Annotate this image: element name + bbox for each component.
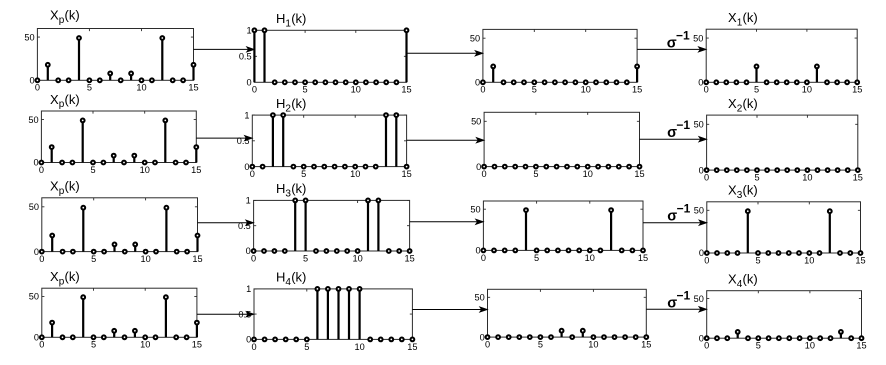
subplot row 4 col 1: axes box [42, 288, 197, 337]
svg-text:10: 10 [351, 85, 361, 95]
stem series prod4 [562, 333, 583, 338]
svg-text:15: 15 [641, 340, 651, 350]
svg-text:5: 5 [754, 85, 759, 95]
title X_p(k) row 1 [50, 8, 80, 26]
stem series Xout1 [757, 68, 817, 82]
svg-text:0: 0 [34, 333, 39, 343]
arrow row 4: plot 2 to plot 3 [412, 306, 488, 313]
svg-text:1: 1 [246, 284, 251, 294]
svg-text:0: 0 [39, 165, 44, 175]
subplot row 3 col 3: axes box [483, 201, 643, 250]
subplot row 2 col 4: axes box [707, 115, 858, 170]
svg-text:0: 0 [482, 169, 487, 179]
svg-text:15: 15 [407, 342, 417, 352]
stem series H3 [295, 202, 378, 251]
svg-text:0: 0 [251, 342, 256, 352]
svg-text:0: 0 [480, 332, 485, 342]
svg-text:0: 0 [251, 253, 256, 263]
svg-text:5: 5 [754, 173, 759, 183]
svg-text:10: 10 [350, 169, 360, 179]
svg-text:(k): (k) [291, 11, 306, 26]
title X_3(k) row 3 [728, 183, 758, 201]
svg-text:0: 0 [704, 85, 709, 95]
title X_1(k) row 1 [728, 10, 758, 28]
tick labels row 4 col 4 [694, 294, 867, 351]
svg-text:(k): (k) [291, 181, 306, 196]
title H_4(k) row 4 [276, 270, 306, 288]
tick labels row 4 col 3 [474, 293, 651, 350]
svg-text:(k): (k) [743, 272, 758, 287]
svg-text:10: 10 [802, 173, 812, 183]
stem series H4 [317, 291, 359, 340]
tick labels row 3 col 4 [694, 206, 866, 266]
svg-text:50: 50 [694, 120, 704, 130]
svg-text:10: 10 [140, 340, 150, 350]
svg-text:10: 10 [804, 255, 814, 265]
stem series Xout2 [705, 168, 860, 172]
subplot row 1 col 1: axes box [37, 29, 193, 81]
tick labels row 2 col 2 [237, 110, 412, 179]
title H_3(k) row 3 [276, 181, 306, 199]
svg-text:50: 50 [28, 115, 38, 125]
svg-text:(k): (k) [65, 92, 80, 107]
svg-text:10: 10 [583, 169, 593, 179]
svg-text:5: 5 [90, 165, 95, 175]
svg-text:15: 15 [638, 253, 648, 263]
svg-text:H: H [276, 96, 285, 111]
svg-text:X: X [50, 8, 59, 23]
svg-text:0: 0 [480, 85, 485, 95]
stem series Xout4 [738, 334, 841, 339]
svg-text:10: 10 [581, 85, 591, 95]
arrow row 2: plot 2 to plot 3 [407, 137, 486, 144]
svg-text:X: X [50, 269, 59, 284]
svg-text:5: 5 [532, 85, 537, 95]
svg-text:1: 1 [246, 196, 251, 206]
svg-text:10: 10 [136, 83, 146, 93]
tick labels row 3 col 3 [470, 204, 648, 262]
sigma^-1 label row 2 [667, 118, 690, 141]
svg-text:H: H [276, 181, 285, 196]
svg-text:15: 15 [404, 253, 414, 263]
svg-text:X: X [728, 183, 737, 198]
svg-text:50: 50 [470, 33, 480, 43]
svg-text:−1: −1 [676, 118, 690, 132]
subplot row 3 col 2: axes box [254, 200, 410, 251]
sigma^-1 label row 3 [667, 202, 690, 225]
svg-text:15: 15 [188, 83, 198, 93]
tick labels row 2 col 4 [694, 120, 863, 183]
svg-text:15: 15 [192, 254, 202, 264]
svg-text:5: 5 [538, 340, 543, 350]
svg-text:5: 5 [533, 169, 538, 179]
svg-text:0: 0 [246, 335, 251, 345]
svg-text:5: 5 [303, 253, 308, 263]
tick labels row 1 col 1 [24, 32, 198, 92]
title X_p(k) row 2 [50, 92, 80, 110]
tick labels row 3 col 1 [29, 202, 203, 264]
stem series H1 [254, 32, 406, 82]
svg-text:50: 50 [694, 294, 704, 304]
svg-text:10: 10 [140, 254, 150, 264]
subplot row 4 col 3: axes box [488, 289, 647, 337]
svg-text:(k): (k) [65, 269, 80, 284]
svg-text:0: 0 [704, 173, 709, 183]
tick labels row 4 col 1 [29, 292, 202, 350]
svg-text:0: 0 [39, 254, 44, 264]
svg-text:5: 5 [304, 342, 309, 352]
arrow row 2: plot 3 to plot 4 [640, 136, 708, 143]
svg-text:0: 0 [29, 76, 34, 86]
title H_2(k) row 2 [276, 96, 306, 114]
svg-text:0: 0 [699, 333, 704, 343]
svg-text:50: 50 [24, 32, 34, 42]
svg-text:H: H [276, 11, 285, 26]
arrow row 3: plot 1 to plot 2 [198, 219, 255, 226]
svg-text:15: 15 [401, 169, 411, 179]
svg-text:10: 10 [588, 340, 598, 350]
svg-text:5: 5 [755, 255, 760, 265]
svg-text:(k): (k) [743, 10, 758, 25]
arrow row 1: plot 2 to plot 3 [407, 50, 485, 57]
svg-text:50: 50 [471, 117, 481, 127]
svg-text:5: 5 [91, 340, 96, 350]
svg-text:0: 0 [250, 169, 255, 179]
svg-text:(k): (k) [291, 270, 306, 285]
title X_p(k) row 3 [50, 179, 80, 197]
svg-text:(k): (k) [291, 96, 306, 111]
svg-text:15: 15 [853, 173, 863, 183]
svg-text:0: 0 [252, 85, 257, 95]
svg-text:0: 0 [485, 340, 490, 350]
svg-text:0: 0 [34, 247, 39, 257]
svg-text:50: 50 [470, 204, 480, 214]
svg-text:X: X [728, 272, 737, 287]
stem series Xout3 [748, 213, 830, 253]
subplot row 1 col 2: axes box [254, 30, 406, 82]
svg-text:15: 15 [632, 85, 642, 95]
svg-text:0: 0 [699, 248, 704, 258]
svg-text:0: 0 [704, 255, 709, 265]
svg-text:0: 0 [698, 78, 703, 88]
svg-text:50: 50 [29, 202, 39, 212]
svg-text:50: 50 [694, 206, 704, 216]
tick labels row 4 col 2 [238, 284, 417, 352]
svg-text:5: 5 [87, 83, 92, 93]
tick labels row 1 col 4 [693, 33, 862, 94]
svg-text:15: 15 [855, 255, 865, 265]
svg-text:15: 15 [192, 340, 202, 350]
svg-text:X: X [728, 10, 737, 25]
subplot row 4 col 4: axes box [707, 291, 862, 339]
svg-text:−1: −1 [677, 288, 691, 302]
arrow row 1: plot 3 to plot 4 [637, 46, 707, 53]
svg-text:15: 15 [856, 341, 866, 351]
svg-text:15: 15 [191, 165, 201, 175]
svg-text:(k): (k) [743, 96, 758, 111]
svg-text:0: 0 [39, 340, 44, 350]
stem series prod2 [482, 165, 641, 169]
tick labels row 2 col 3 [471, 117, 645, 180]
svg-text:0: 0 [246, 78, 251, 88]
svg-text:50: 50 [29, 292, 39, 302]
svg-text:50: 50 [693, 33, 703, 43]
sigma^-1 label row 1 [667, 28, 690, 51]
subplot row 3 col 4: axes box [707, 202, 861, 253]
subplot row 2 col 1: axes box [41, 111, 196, 163]
stem series Xp4 [52, 299, 197, 337]
svg-text:10: 10 [354, 342, 364, 352]
svg-text:0: 0 [246, 246, 251, 256]
subplot row 1 col 3: axes box [483, 29, 637, 82]
sigma^-1 label row 4 [667, 288, 690, 311]
svg-text:0: 0 [481, 253, 486, 263]
svg-text:10: 10 [585, 253, 595, 263]
stem series H2 [273, 117, 396, 167]
svg-text:0: 0 [476, 162, 481, 172]
svg-text:0: 0 [244, 162, 249, 172]
svg-text:10: 10 [805, 341, 815, 351]
svg-text:0.5: 0.5 [239, 52, 252, 62]
svg-text:X: X [50, 92, 59, 107]
title X_2(k) row 2 [728, 96, 758, 114]
svg-text:5: 5 [534, 253, 539, 263]
svg-text:5: 5 [91, 254, 96, 264]
arrow row 3: plot 2 to plot 3 [410, 218, 485, 225]
stem series Xp3 [52, 210, 197, 252]
arrow row 4: plot 3 to plot 4 [646, 306, 708, 313]
svg-text:(k): (k) [65, 8, 80, 23]
svg-text:10: 10 [140, 165, 150, 175]
svg-text:15: 15 [634, 169, 644, 179]
svg-text:0: 0 [699, 165, 704, 175]
svg-text:X: X [728, 96, 737, 111]
stem series Xp2 [52, 122, 197, 162]
svg-text:0: 0 [475, 78, 480, 88]
svg-text:0: 0 [35, 83, 40, 93]
arrow row 2: plot 1 to plot 2 [196, 135, 253, 142]
svg-text:15: 15 [401, 85, 411, 95]
stem series prod3 [526, 212, 611, 251]
arrow row 3: plot 3 to plot 4 [643, 219, 708, 226]
svg-text:1: 1 [244, 110, 249, 120]
stem series prod1 [493, 68, 637, 82]
arrow row 4: plot 1 to plot 2 [197, 311, 255, 318]
svg-text:0: 0 [475, 246, 480, 256]
svg-text:0: 0 [704, 341, 709, 351]
svg-text:10: 10 [802, 85, 812, 95]
subplot row 2 col 2: axes box [252, 115, 406, 167]
subplot row 2 col 3: axes box [484, 112, 639, 166]
svg-text:X: X [50, 179, 59, 194]
svg-text:50: 50 [474, 293, 484, 303]
svg-text:0: 0 [33, 158, 38, 168]
subplot row 1 col 4: axes box [706, 29, 857, 82]
svg-text:5: 5 [301, 169, 306, 179]
svg-text:H: H [276, 270, 285, 285]
subplot row 4 col 2: axes box [254, 289, 412, 340]
stem series Xp1 [48, 40, 194, 81]
svg-text:−1: −1 [677, 202, 691, 216]
title H_1(k) row 1 [276, 11, 306, 29]
tick labels row 3 col 2 [238, 196, 415, 264]
svg-text:5: 5 [303, 85, 308, 95]
tick labels row 1 col 2 [239, 26, 412, 95]
title X_4(k) row 4 [728, 272, 758, 290]
title X_p(k) row 4 [50, 269, 80, 287]
subplot row 3 col 1: axes box [42, 198, 198, 252]
svg-text:−1: −1 [676, 28, 690, 42]
tick labels row 1 col 3 [470, 33, 642, 94]
svg-text:(k): (k) [65, 179, 80, 194]
svg-text:10: 10 [352, 253, 362, 263]
arrow row 1: plot 1 to plot 2 [194, 46, 256, 53]
svg-text:1: 1 [246, 26, 251, 36]
svg-text:5: 5 [756, 341, 761, 351]
tick labels row 2 col 1 [28, 115, 201, 175]
svg-text:(k): (k) [743, 183, 758, 198]
svg-text:15: 15 [852, 85, 862, 95]
